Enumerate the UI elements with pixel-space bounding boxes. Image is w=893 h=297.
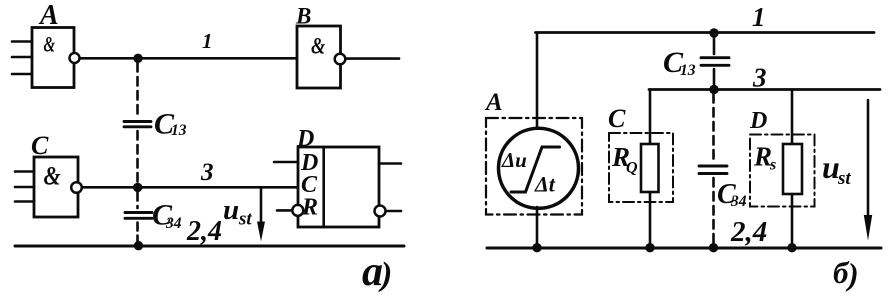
net 3 wire (right) [649, 88, 880, 91]
svg-text:st: st [837, 168, 851, 189]
flip-flop R input pin with inversion circle [277, 205, 303, 216]
wire element A to bottom bus [536, 207, 539, 248]
bottom bus 2,4 (left) [15, 245, 404, 248]
svg-text:3: 3 [200, 159, 214, 186]
element A ramp symbol [511, 147, 560, 192]
wire net1 corner down to element A [536, 33, 539, 130]
label C13 [154, 108, 187, 141]
svg-text:D: D [749, 108, 767, 134]
svg-text:A: A [484, 89, 503, 116]
element A dash-dot boundary box [486, 118, 582, 215]
capacitor C34 [125, 213, 152, 219]
svg-text:3: 3 [752, 63, 767, 93]
resistor Rs branch wire lower [791, 194, 794, 248]
arrow u_st (left) [257, 188, 265, 242]
label а) [362, 249, 392, 295]
svg-text:C: C [608, 104, 626, 133]
svg-text:Δu: Δu [501, 148, 527, 172]
wire net 1 (gate A output to gate B input) [80, 57, 298, 60]
capacitor C34 (right) [699, 166, 727, 174]
gate B output wire [346, 57, 400, 60]
label C34 [152, 199, 182, 233]
svg-text:A: A [38, 0, 59, 31]
dashed line C34 to bottom bus [136, 223, 139, 244]
gate A input pins [12, 42, 32, 75]
svg-text:Q: Q [626, 160, 638, 177]
junction bottom bus at Rs [787, 243, 796, 252]
Rs dash-dot boundary box [750, 135, 815, 207]
dashed line net 3 to C34 [136, 192, 139, 208]
label u_st (left) [223, 194, 252, 230]
RQ dash-dot boundary box [609, 133, 673, 202]
svg-text:&: & [44, 163, 61, 191]
dashed line C34 to bottom bus (right) [712, 178, 715, 245]
svg-text:): ) [845, 256, 859, 292]
gate A output inversion circle [70, 53, 80, 63]
svg-text:D: D [296, 126, 314, 152]
resistor Rs body [783, 144, 802, 194]
svg-text:): ) [378, 256, 392, 293]
svg-text:u: u [223, 194, 239, 226]
gate C input pins [15, 172, 34, 202]
svg-text:34: 34 [730, 193, 747, 210]
resistor Rs branch wire upper [791, 90, 794, 146]
dashed stray-coupling line (net 1 to C13) [136, 63, 139, 117]
svg-text:&: & [311, 33, 325, 60]
junction on bottom bus (left) [134, 241, 143, 250]
label RQ [611, 142, 638, 177]
label C34 (right) [717, 179, 747, 210]
junction bottom bus at element A [532, 243, 541, 252]
gate A (NAND) body [32, 28, 74, 88]
svg-text:2,4: 2,4 [730, 216, 767, 248]
flip-flop top output pin [379, 162, 401, 165]
wire net1 to C13 (right) [713, 33, 716, 55]
capacitor C13 [124, 122, 151, 127]
svg-text:13: 13 [171, 122, 187, 139]
svg-text:34: 34 [165, 215, 182, 232]
flip-flop bottom output pin with inversion circle [375, 206, 402, 217]
junction bottom bus at RQ [645, 243, 654, 252]
resistor RQ branch wire upper [649, 90, 652, 146]
svg-text:а: а [362, 249, 383, 295]
svg-text:C: C [31, 131, 49, 160]
flip-flop D input pin [274, 161, 298, 164]
element A circle (differentiator) [499, 128, 579, 208]
dashed line net 3 to C34 (right) [712, 94, 715, 161]
label u_st (right) [822, 149, 851, 189]
flip-flop D body [298, 147, 379, 227]
gate C output inversion circle [71, 182, 82, 193]
junction bottom bus at C34 [709, 243, 718, 252]
gate B (NAND) body [297, 26, 341, 88]
gate C (NAND) body [34, 157, 78, 217]
arrow u_st (right) [864, 100, 872, 241]
bottom bus 2,4 (right) [487, 247, 881, 250]
label Rs [753, 142, 776, 174]
svg-text:s: s [769, 157, 776, 174]
svg-text:&: & [44, 33, 56, 58]
gate B output inversion circle [335, 54, 346, 65]
junction node on net 1 [133, 54, 142, 63]
capacitor C13 (right) [701, 58, 729, 66]
svg-text:B: B [295, 4, 311, 29]
junction net 3 / C13 [709, 85, 718, 94]
resistor RQ body [641, 144, 659, 192]
junction node on net 3 [133, 183, 142, 192]
svg-text:13: 13 [680, 62, 696, 79]
junction net1 / C13 [709, 28, 718, 37]
svg-text:st: st [238, 209, 252, 230]
svg-text:2,4: 2,4 [186, 216, 222, 247]
label б) [833, 255, 859, 292]
label C13 (right) [663, 46, 696, 79]
net 1 top wire (right) [536, 31, 875, 34]
resistor RQ branch wire lower [649, 192, 652, 248]
wire net 3 (gate C output to flip-flop C input) [82, 186, 298, 189]
svg-text:1: 1 [202, 29, 213, 53]
dashed line C13 to net 3 [136, 131, 139, 183]
wire C13 to net 3 [713, 69, 716, 90]
svg-text:Δt: Δt [534, 172, 556, 197]
svg-text:1: 1 [752, 2, 766, 32]
flip-flop pin labels D C R [300, 150, 318, 221]
